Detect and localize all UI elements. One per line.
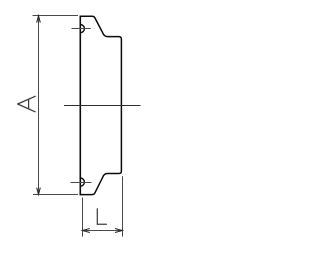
dimension L right extension line [122,176,124,236]
top bead centerline [72,28,91,30]
top gasket bead arc [80,25,84,33]
bottom bead centerline [71,182,92,184]
dimension L line [83,230,123,232]
dimension A line [38,16,40,194]
dimension L left extension line [82,198,84,237]
label L [97,209,106,224]
horizontal centerline [64,105,141,107]
dimension L left arrowhead [83,229,90,233]
dimension A bottom extension line [33,194,78,196]
dimension A top extension line [33,15,79,17]
dimension A top arrowhead [37,16,41,23]
bottom gasket bead arc [80,178,84,186]
left face line [79,16,81,196]
part outline [80,16,121,194]
dimension A bottom arrowhead [37,188,41,195]
dimension L right arrowhead [115,229,122,233]
label A (rotated) [18,96,36,112]
